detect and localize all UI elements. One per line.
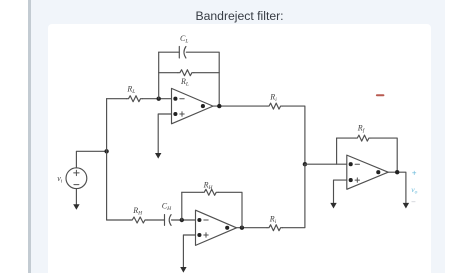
svg-text:vo: vo — [411, 185, 417, 196]
wire top branch left — [107, 98, 127, 100]
wire U3 feedback top left — [337, 137, 356, 139]
svg-text:vi: vi — [57, 174, 63, 185]
node U1 output — [217, 104, 221, 108]
svg-text:CL: CL — [180, 34, 188, 45]
capacitor CL — [179, 47, 186, 59]
wire U2 feedback top left — [182, 191, 202, 193]
op-amp U3 — [347, 155, 388, 189]
wire input vertical — [106, 99, 108, 220]
svg-text:−: − — [411, 197, 416, 206]
wire RL feedback branch right — [194, 72, 219, 74]
wire RH to CH — [147, 219, 164, 221]
ground (output) — [403, 203, 409, 209]
resistor RL (feedback) — [178, 70, 194, 76]
svg-text:+: + — [412, 169, 417, 178]
ground (source) — [73, 204, 79, 210]
wire source top — [76, 151, 106, 168]
wire source bottom — [75, 189, 77, 205]
wire CH to U2 inv — [172, 219, 196, 221]
wire U3 feedback left vertical — [336, 138, 338, 164]
wire U1 output — [213, 105, 267, 107]
svg-text:RH: RH — [203, 180, 214, 191]
node summing — [303, 162, 307, 166]
svg-text:Ri: Ri — [269, 215, 277, 226]
ground (U1 plus) — [155, 153, 161, 159]
wire RL to U1 inv — [143, 98, 172, 100]
wire Ri top to summing vertical — [283, 106, 305, 164]
wire U3 output — [388, 172, 406, 203]
wire U2 plus to ground — [183, 235, 195, 268]
wire U3 feedback top right — [371, 138, 397, 172]
resistor Ri (top) — [267, 103, 283, 109]
wire CL branch right — [186, 52, 219, 106]
svg-text:Ri: Ri — [269, 93, 277, 104]
node U2 inv — [180, 218, 184, 222]
resistor Ri (bottom) — [267, 225, 283, 231]
source vi — [66, 168, 87, 189]
svg-text:Rf: Rf — [357, 123, 366, 134]
resistor RH (feedback) — [202, 189, 218, 195]
annotation red dash — [376, 94, 385, 96]
svg-text:CH: CH — [162, 202, 172, 213]
node U1 inv — [157, 97, 161, 101]
wire RL feedback branch left — [159, 72, 178, 74]
svg-text:RL: RL — [180, 77, 189, 88]
wire U1 plus to ground — [158, 114, 171, 154]
wire bottom branch left — [107, 219, 130, 221]
op-amp U2 — [196, 210, 237, 245]
node input tap — [104, 149, 108, 153]
wire U3 plus to ground — [334, 180, 347, 203]
wire summing vertical lower — [283, 164, 305, 228]
svg-text:RH: RH — [132, 206, 143, 217]
resistor Rf — [355, 135, 371, 141]
svg-text:RL: RL — [126, 85, 135, 96]
wire U2 feedback top right — [218, 192, 242, 227]
wire U2 feedback left vertical — [181, 192, 183, 220]
wire CL branch left — [159, 51, 180, 53]
node U2 output — [240, 226, 244, 230]
resistor RL (input) — [127, 96, 143, 102]
capacitor CH — [165, 215, 172, 226]
wire feedback left vertical U1 — [158, 52, 160, 98]
wire Ri bottom to U2 output — [237, 227, 268, 229]
ground (U3 plus) — [330, 203, 336, 209]
ground (U2 plus) — [180, 267, 186, 273]
op-amp U1 — [172, 88, 214, 123]
node U3 output — [395, 170, 399, 174]
resistor RH (series) — [130, 217, 147, 223]
wire summing to U3 inv — [305, 163, 347, 165]
